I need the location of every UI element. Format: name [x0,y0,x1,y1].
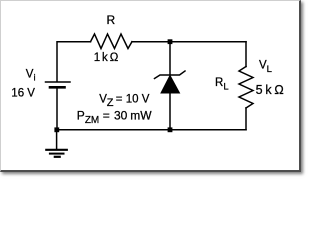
svg-text:PZM=30mW: PZM=30mW [77,108,152,126]
node junction top [168,39,173,44]
wire right rail upper [245,42,247,67]
wire bottom [57,129,246,131]
wire top left segment [57,42,91,82]
wire left rail lower [56,89,58,130]
wire right rail lower [245,108,247,130]
svg-text:RL: RL [215,77,229,93]
svg-text:1kΩ: 1kΩ [94,52,119,64]
svg-text:5kΩ: 5kΩ [256,83,284,97]
resistor R [91,34,133,49]
wire zener branch lower [169,93,171,130]
svg-text:R: R [107,13,116,27]
svg-text:16 V: 16 V [11,87,35,99]
svg-text:Vi: Vi [26,69,36,84]
card frame [0,0,301,172]
svg-text:VL: VL [259,59,272,75]
svg-text:VZ= 10 V: VZ= 10 V [99,93,149,109]
resistor RL zigzag [239,67,253,109]
wire ground stub [56,130,58,149]
battery source Vi short plate [50,86,65,89]
zener diode D1 triangle [161,76,180,94]
node junction bottom-left [54,127,59,132]
zener diode D1 cathode bar with bent ends [155,71,186,79]
wire top right segment [132,41,246,43]
wire zener branch upper [169,42,171,75]
battery source Vi long plate [46,81,71,83]
node junction bottom [168,127,173,132]
ground symbol [46,150,67,157]
